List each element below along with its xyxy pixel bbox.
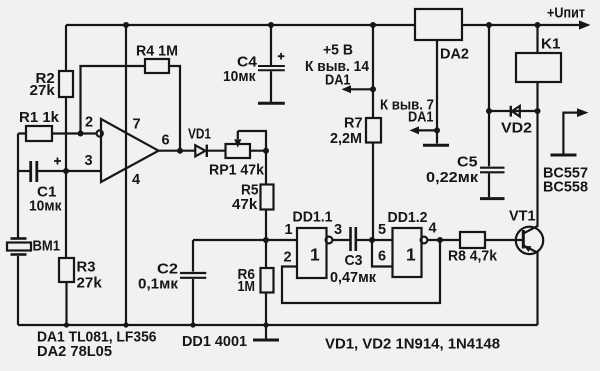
svg-text:RP1 47k: RP1 47k — [209, 162, 265, 179]
svg-text:R1 1k: R1 1k — [19, 109, 60, 126]
svg-text:C3: C3 — [345, 252, 363, 269]
svg-text:VT1: VT1 — [509, 208, 536, 225]
svg-text:47k: 47k — [232, 196, 258, 213]
svg-text:DD1.2: DD1.2 — [388, 210, 428, 226]
svg-text:1: 1 — [406, 245, 416, 265]
svg-text:C5: C5 — [457, 154, 478, 171]
svg-text:10мк: 10мк — [29, 198, 62, 215]
svg-text:1: 1 — [310, 245, 320, 265]
svg-text:+Uпит: +Uпит — [547, 5, 585, 22]
svg-text:VD1, VD2 1N914, 1N4148: VD1, VD2 1N914, 1N4148 — [325, 336, 500, 353]
svg-text:DA2 78L05: DA2 78L05 — [37, 343, 112, 360]
svg-text:2: 2 — [85, 115, 93, 131]
svg-text:DD1.1: DD1.1 — [293, 210, 333, 226]
svg-text:BC558: BC558 — [543, 179, 588, 196]
svg-text:1: 1 — [285, 222, 293, 238]
svg-text:3: 3 — [85, 153, 93, 169]
svg-text:DA1: DA1 — [325, 72, 351, 89]
svg-text:R7: R7 — [344, 115, 363, 132]
svg-text:27k: 27k — [30, 82, 56, 99]
svg-text:6: 6 — [378, 249, 386, 265]
svg-text:+5 В: +5 В — [323, 42, 353, 59]
svg-text:2,2М: 2,2М — [330, 130, 362, 147]
svg-text:DA1: DA1 — [408, 109, 434, 126]
svg-text:BM1: BM1 — [33, 238, 61, 255]
svg-text:0,47мк: 0,47мк — [330, 269, 376, 286]
svg-text:7: 7 — [133, 116, 141, 132]
svg-text:DA2: DA2 — [440, 46, 469, 63]
svg-text:3: 3 — [334, 222, 342, 238]
svg-text:2: 2 — [284, 250, 292, 266]
svg-text:VD2: VD2 — [501, 120, 532, 137]
svg-text:5: 5 — [378, 222, 386, 238]
svg-text:DD1 4001: DD1 4001 — [182, 333, 247, 350]
svg-text:R4 1M: R4 1M — [136, 43, 178, 60]
svg-text:VD1: VD1 — [188, 126, 211, 143]
svg-text:0,22мк: 0,22мк — [426, 169, 479, 186]
svg-text:1M: 1M — [238, 278, 256, 295]
svg-text:4: 4 — [429, 221, 437, 237]
svg-text:K1: K1 — [541, 36, 561, 53]
svg-text:10мк: 10мк — [223, 68, 256, 85]
svg-text:6: 6 — [162, 133, 170, 149]
svg-text:R8 4,7k: R8 4,7k — [448, 248, 498, 265]
svg-text:27k: 27k — [77, 275, 103, 292]
svg-text:4: 4 — [132, 172, 140, 188]
svg-text:R3: R3 — [77, 259, 96, 276]
svg-text:0,1мк: 0,1мк — [138, 276, 178, 293]
